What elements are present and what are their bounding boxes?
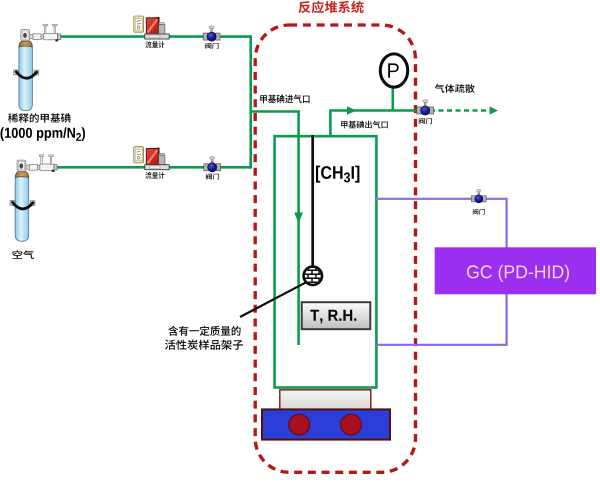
GC (PD-HID) instrument box [435, 247, 596, 294]
wire: supply line 1 from cylinder 1 regulator to junction [61, 35, 251, 38]
wire: inlet tube inside vessel (redraw over vessel top) [297, 135, 300, 345]
label: valve 1 [205, 43, 218, 49]
wire: supply line 2 from air cylinder regulator to junction [56, 166, 251, 169]
valve 1 on supply line 1 [203, 26, 220, 41]
label: (1000 ppm/N2) [1, 127, 86, 141]
valve 4 on purple sampling line [471, 189, 486, 202]
flow meter 1 [134, 16, 169, 39]
wire: purple return line from GC back to vessel [376, 294, 507, 345]
heater pedestal [280, 390, 371, 410]
label: valve 2 [206, 174, 219, 180]
label: methyl iodide outlet port [341, 121, 388, 129]
wire: methyl iodide inlet branch into reactor [251, 112, 299, 346]
arrow: rightward flow arrow on outlet line [347, 106, 357, 115]
reactor vessel (green rectangle) [275, 136, 377, 387]
label: gas evacuation [435, 84, 475, 93]
label: valve 4 [473, 209, 485, 215]
wire: junction vertical line [249, 35, 252, 168]
wire: methyl iodide outlet line [330, 111, 421, 138]
label: sample description line 1 [168, 326, 240, 336]
flow meter 2 [134, 147, 169, 170]
gas cylinder 2: air [10, 155, 57, 242]
wire: purple sampling line from vessel to GC via valve [376, 199, 507, 248]
arrow: evacuation arrowhead [490, 106, 499, 114]
label: reactor system title (red) [299, 1, 364, 13]
label: sample description line 2 [165, 340, 243, 350]
label: methyl iodide inlet port [260, 95, 309, 104]
label: flow meter 1 [145, 41, 164, 48]
reactor system dashed boundary [255, 25, 415, 472]
label: diluted methyl iodide (cylinder 1) [8, 113, 71, 122]
arrow: downward flow arrow on inlet tube [294, 213, 303, 224]
magnetic stirrer / hot plate (blue) [262, 409, 390, 439]
label: valve 3 [419, 118, 432, 124]
pressure gauge P [380, 54, 407, 87]
wire: pressure gauge stem [391, 83, 394, 111]
sample holder rod [311, 135, 314, 267]
activated carbon sample (hatched circle) [303, 266, 323, 286]
gas cylinder 1: diluted methyl iodide [14, 24, 61, 111]
label: air (cylinder 2) [13, 250, 34, 259]
valve 2 on supply line 2 [204, 157, 221, 172]
valve 3 on evacuation line [417, 100, 434, 115]
pointer line from sample to its label [240, 282, 306, 317]
label: flow meter 2 [145, 172, 164, 179]
wire: dashed gas evacuation line [430, 109, 488, 112]
label: [CH3I] concentration [316, 166, 359, 183]
T, R.H. sensor box [302, 302, 371, 329]
